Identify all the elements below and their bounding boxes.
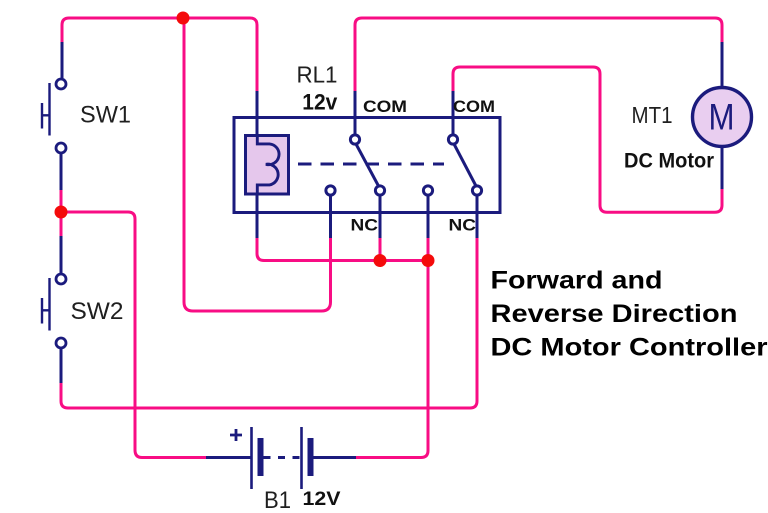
wire W3: COM1 pin up and right to motor top — [355, 18, 722, 93]
junction dot top — [177, 12, 190, 25]
wire navy stub: SW2 bottom lead — [60, 349, 63, 383]
pushbutton SW2 contacts — [56, 274, 66, 284]
wire navy stub: NO2 pin — [427, 194, 430, 238]
battery plate short 2 — [308, 438, 314, 476]
wire navy stub: NC2 pin — [476, 194, 479, 238]
wire W7: SW2 bottom right to NC2 pin — [61, 236, 477, 408]
svg-text:M: M — [709, 97, 735, 138]
relay contact NO2 — [423, 186, 432, 195]
wire navy stub: motor bottom lead — [721, 146, 724, 189]
svg-text:SW1: SW1 — [80, 102, 131, 129]
junction dot NO2 — [422, 254, 435, 267]
wire W2: junction on W1 down to NO1 pin — [184, 18, 331, 311]
svg-text:Forward and: Forward and — [491, 267, 663, 295]
wire W6: junction right and down to battery left lead — [61, 212, 207, 458]
svg-text:MT1: MT1 — [632, 102, 673, 128]
relay contact COM1 — [350, 135, 359, 144]
svg-text:12V: 12V — [303, 489, 341, 510]
battery right lead — [314, 456, 357, 459]
relay RL1 box — [234, 118, 500, 213]
wire navy stub: coil pin bottom — [256, 194, 259, 238]
svg-text:RL1: RL1 — [297, 62, 338, 88]
relay contact NO1 — [326, 186, 335, 195]
relay coil winding symbol — [257, 136, 279, 194]
svg-text:B1: B1 — [264, 487, 291, 513]
pushbutton SW1 plunger — [42, 83, 50, 136]
svg-text:COM: COM — [453, 98, 495, 116]
relay pole1 blade — [356, 144, 379, 186]
relay dashed actuator line — [298, 163, 444, 166]
svg-text:DC Motor Controller: DC Motor Controller — [491, 334, 768, 362]
svg-text:DC Motor: DC Motor — [624, 149, 715, 173]
svg-text:12v: 12v — [302, 89, 338, 114]
wire W4: COM2 pin up, right and down to motor bottom — [453, 67, 722, 212]
battery plate long 2 — [300, 427, 303, 489]
wire W1 top-left: SW1 top to relay coil pin — [62, 18, 257, 93]
wire navy stub: SW1 top lead — [61, 42, 64, 78]
relay contact NC1 — [375, 186, 384, 195]
relay pole2 blade — [454, 144, 476, 186]
svg-text:SW2: SW2 — [71, 298, 124, 325]
wire navy stub: NC1 pin — [379, 194, 382, 238]
wire W5: SW1 bottom to junction, down to SW2 top — [60, 188, 63, 238]
wire W8: coil bottom pin to NC1/NO2 junctions — [257, 236, 428, 261]
battery middle dashed link — [264, 456, 302, 459]
relay contact COM2 — [448, 135, 457, 144]
motor MT1 — [693, 88, 752, 147]
pushbutton SW2 plunger — [42, 278, 50, 331]
svg-text:NC: NC — [449, 217, 477, 235]
wire navy stub: COM1 pin — [354, 91, 357, 136]
svg-text:Reverse Direction: Reverse Direction — [491, 300, 738, 328]
junction dot NC1 — [374, 254, 387, 267]
svg-text:COM: COM — [363, 98, 407, 116]
junction dot SW1 bottom — [55, 206, 68, 219]
wire W10: NO2 pin down through junction to battery right lead — [355, 236, 428, 458]
wire navy stub: coil pin top — [256, 91, 259, 136]
wire navy stub: COM2 pin — [452, 91, 455, 136]
wire W9: NC1 pin down to junction — [379, 236, 382, 261]
svg-text:NC: NC — [351, 217, 379, 235]
battery plate short 1 — [258, 438, 264, 476]
wire navy stub: motor top lead — [721, 42, 724, 88]
wire navy stub: SW2 top lead — [60, 236, 63, 274]
relay coil — [246, 136, 289, 195]
relay contact NC2 — [472, 186, 481, 195]
pushbutton SW1 contacts — [56, 79, 66, 89]
battery B1 left lead — [206, 456, 251, 459]
battery plate long 1 — [250, 427, 253, 489]
battery plus sign — [230, 429, 242, 441]
wire navy stub: NO1 pin — [329, 194, 332, 238]
wire navy stub: SW1 bottom lead — [60, 153, 63, 190]
